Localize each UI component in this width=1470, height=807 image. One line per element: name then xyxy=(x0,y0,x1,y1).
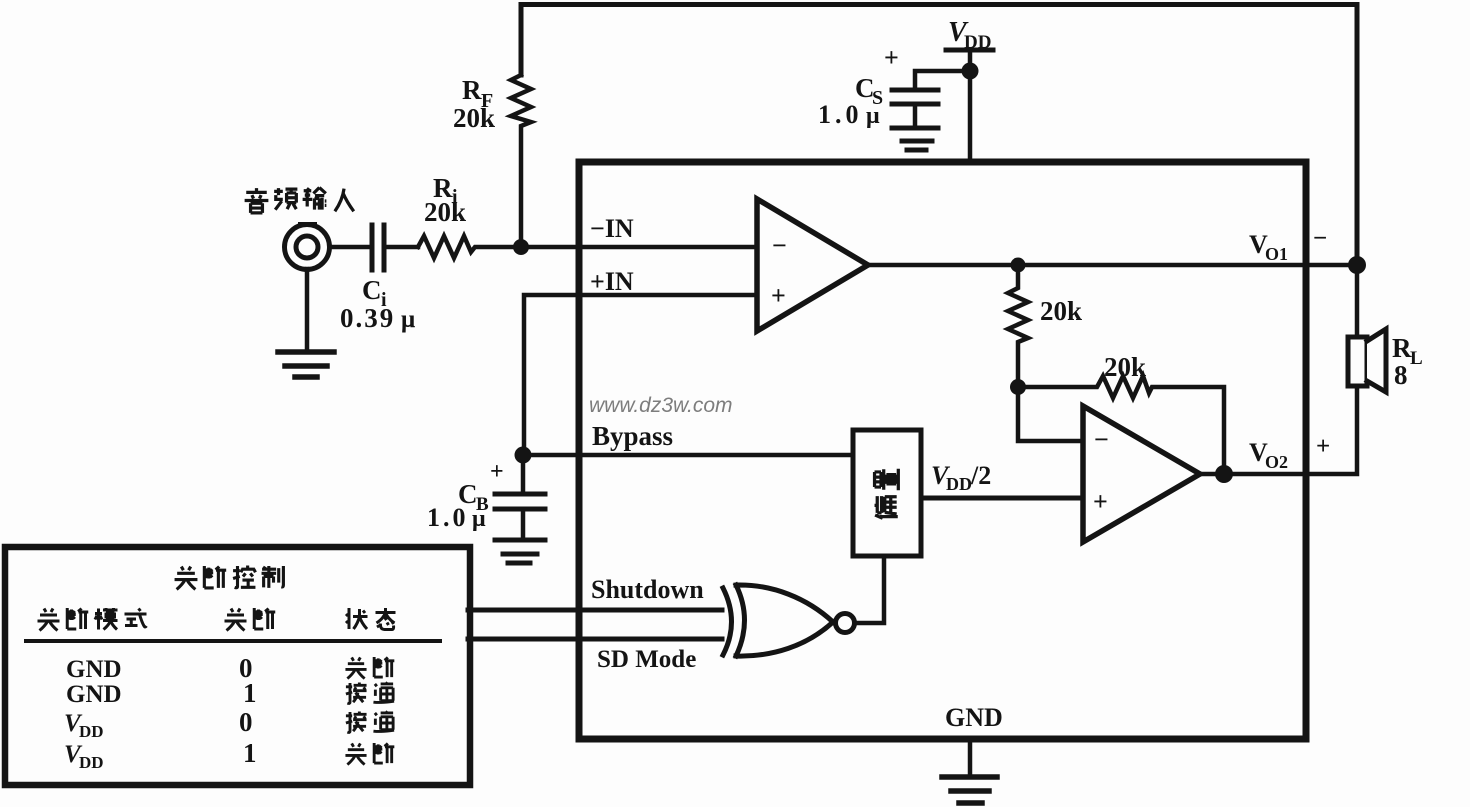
svg-text:/2: /2 xyxy=(970,461,991,490)
svg-text:20k: 20k xyxy=(1104,352,1146,382)
svg-text:20k: 20k xyxy=(1040,296,1082,326)
svg-text:C: C xyxy=(362,275,382,305)
svg-text:DD: DD xyxy=(946,474,972,494)
svg-text:DD: DD xyxy=(964,32,991,53)
svg-text:DD: DD xyxy=(79,722,104,741)
svg-text:+: + xyxy=(1093,487,1108,516)
svg-text:μ: μ xyxy=(866,103,880,129)
svg-text:+: + xyxy=(1316,433,1330,460)
svg-text:−: − xyxy=(772,231,787,260)
svg-text:1: 1 xyxy=(243,678,257,708)
svg-text:SD Mode: SD Mode xyxy=(597,646,696,673)
svg-text:GND: GND xyxy=(945,703,1003,732)
svg-text:R: R xyxy=(1392,333,1412,363)
svg-text:+: + xyxy=(490,459,504,485)
svg-text:μ: μ xyxy=(401,306,415,333)
svg-text:L: L xyxy=(1410,348,1423,369)
svg-text:Bypass: Bypass xyxy=(592,421,673,451)
svg-text:R: R xyxy=(462,75,482,105)
svg-text:+: + xyxy=(884,43,899,72)
svg-text:μ: μ xyxy=(472,506,486,532)
svg-text:www.dz3w.com: www.dz3w.com xyxy=(589,394,733,417)
svg-text:Shutdown: Shutdown xyxy=(591,575,704,604)
svg-text:−: − xyxy=(1094,425,1109,454)
svg-text:1.0: 1.0 xyxy=(427,503,469,532)
svg-text:O1: O1 xyxy=(1265,244,1288,264)
svg-text:1.0: 1.0 xyxy=(818,100,863,129)
svg-text:+IN: +IN xyxy=(590,267,634,296)
svg-text:20k: 20k xyxy=(453,103,495,133)
svg-text:GND: GND xyxy=(66,656,122,683)
svg-text:0: 0 xyxy=(239,707,253,737)
svg-text:0.39: 0.39 xyxy=(340,303,395,333)
svg-text:DD: DD xyxy=(79,753,104,772)
svg-text:−: − xyxy=(1313,225,1327,252)
svg-text:O2: O2 xyxy=(1265,452,1288,472)
svg-text:−IN: −IN xyxy=(590,214,634,243)
svg-text:20k: 20k xyxy=(424,197,466,227)
svg-text:8: 8 xyxy=(1394,360,1408,390)
svg-text:GND: GND xyxy=(66,681,122,708)
svg-text:+: + xyxy=(771,281,786,310)
svg-text:1: 1 xyxy=(243,738,257,768)
